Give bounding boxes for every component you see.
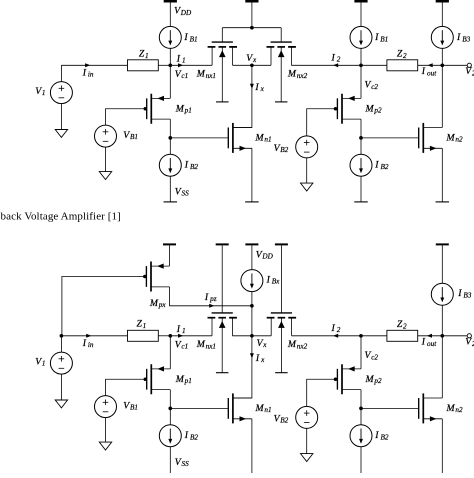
svg-text:out: out [427,340,437,348]
wire V2 down to Mn2 drain (bottom) [441,336,443,398]
VDD supply tick above Mpx [163,243,176,245]
label VSS (bottom) [175,457,189,468]
wire IBx to Ipz node [251,292,253,306]
label IB2 (right) [374,160,389,171]
wire Mnx2 to node Vc2 (bottom) [292,335,361,337]
svg-text:B2: B2 [280,146,288,154]
impedance Z1 [128,60,159,71]
svg-text:B2: B2 [280,417,288,425]
label IB2 (left) [184,160,199,171]
arrow I1 (bottom) [178,334,183,338]
label IB3 [456,32,471,43]
svg-text:B2: B2 [190,433,198,441]
wire VB2 down to ground (bottom) [306,428,308,453]
arrow Ix (bottom) [250,353,254,358]
label IB2 left (bottom) [184,430,199,441]
wire Z1 to node Vc1 (bottom) [158,335,170,337]
current source IB2 left (bottom) [159,425,181,447]
svg-text:B1: B1 [380,35,388,43]
transistor Mp1 [147,94,171,124]
svg-text:1: 1 [145,52,149,60]
wire V1 up to input corner [60,65,62,81]
arrow I2 [333,63,338,67]
transistor Mn1 (bottom) [228,393,252,423]
wire V1 up to input node (bottom) [60,336,62,352]
svg-text:out: out [427,69,437,77]
wire IB2 right to rail [360,176,362,202]
label Ix (bottom) [255,353,265,364]
wire VB2 up to Mp2 gate (bottom) [307,379,338,406]
svg-text:back Voltage Amplifier [1]: back Voltage Amplifier [1] [1,211,121,223]
node Mp1 gate dot [144,107,148,111]
ground below VB1 [99,172,111,180]
label I1 (bottom) [176,324,186,335]
svg-text:p1: p1 [184,377,192,385]
caption text [1,211,121,223]
wire node A to Mn1 gate (bottom) [170,407,228,409]
label Iin [82,67,94,78]
node A (Mp1 drain / IB2 / Mn1 gate) [168,136,172,140]
svg-text:M: M [255,403,265,414]
transistor Mp2 (bottom) [337,364,361,394]
wire node B to Mn2 gate [361,137,419,139]
current source IB3 [431,26,453,48]
svg-text:M: M [446,403,456,414]
label Mp2 (bottom) [365,374,382,385]
wire Mn2 source down to rail [441,148,443,202]
svg-text:2: 2 [337,56,341,64]
wire node Vx to Mnx2 (bottom) [252,335,271,337]
label Mp2 [365,103,382,114]
label Mp1 [175,103,192,114]
svg-text:nx2: nx2 [297,72,308,80]
svg-text:c1: c1 [181,343,188,351]
ground below V1 (bottom) [55,400,67,408]
svg-text:px: px [158,301,167,309]
svg-text:1: 1 [182,327,186,335]
wire IB2 to VSS (bottom) [169,447,171,473]
terminal V2 (bottom) [467,334,471,338]
wire Vc2 down to Mp2 source (bottom) [360,336,362,369]
VDD supply tick T3 (above Vc2, cropped) [354,0,367,3]
svg-text:nx2: nx2 [297,342,308,350]
svg-text:M: M [287,69,297,80]
label VDD (bottom fig) [256,250,274,261]
node Ipz junction [250,304,254,308]
label Mn2 (bottom) [446,403,463,414]
label IB3 (bottom) [457,288,472,299]
svg-text:B2: B2 [381,433,389,441]
label Vx (bottom) [257,338,268,349]
wire input to Z1 [61,64,127,66]
label I2 (bottom) [331,323,341,334]
wire IB1 right to node Vc2 [360,48,362,65]
svg-text:1: 1 [42,360,46,368]
svg-text:1: 1 [42,89,46,97]
VDD supply tick above Mnx1 gate [216,243,229,245]
label Vc1 [175,69,188,80]
wire Vc2 to Z2 [361,64,387,66]
svg-text:B1: B1 [130,404,138,412]
current source IB1 (left) [159,26,181,48]
label Mnx2 [287,69,308,80]
wire IB3 to node V2 [441,48,443,65]
svg-text:p2: p2 [373,377,382,385]
wire Mp1 gate to VB1 [106,109,147,125]
svg-text:DD: DD [261,253,273,261]
label V2 [465,66,474,77]
transistor Mnx1 [208,42,237,102]
wire node V2 to terminal (bottom) [442,335,467,337]
node Vc2 [359,63,363,67]
svg-text:B3: B3 [462,35,470,43]
svg-text:c2: c2 [371,353,378,361]
VSS rail tick [164,201,178,203]
wire Mnx1 to node Vx (bottom) [232,335,252,337]
arrow Ipz [209,304,214,308]
svg-text:B1: B1 [130,133,138,141]
wire Mnx1 gate stub [221,28,223,42]
wire Ipz node down to Vx [251,306,253,336]
arrow I1 [178,63,183,67]
svg-text:M: M [175,103,185,114]
wire Mnx2 gate to VDD tick [280,245,282,313]
svg-text:2: 2 [403,322,407,330]
node Vx (bottom) [250,334,254,338]
wire VB2 up to Mp2 gate [307,109,338,136]
svg-text:M: M [365,374,375,385]
wire node A to Mn1 gate [170,137,228,139]
wire Vx down to Mn1 drain (bottom) [233,336,252,398]
label IB1 (right) [374,32,388,43]
arrow Iout (bottom) [427,334,432,338]
label Z2 (bottom) [397,319,407,330]
arrow Iout [428,63,433,67]
wire VDD tick to IBx [251,245,253,269]
label Z2 [397,49,407,60]
wire Mp2 drain to node B (bottom) [360,390,362,409]
svg-text:M: M [175,374,185,385]
arrow Ix [250,84,254,89]
VDD supply tick T4 (above V2, cropped) [436,0,449,3]
svg-text:Z: Z [397,319,403,330]
node A (bottom) [168,407,172,411]
label VSS [175,186,189,197]
wire V2 down to Mn2 drain [441,65,443,127]
wire Mpx gate to input node [62,277,146,336]
arrow I2 (bottom) [333,334,338,338]
label Ix [254,82,264,93]
label Mp1 (bottom) [175,374,192,385]
transistor Mpx [146,262,169,292]
terminal V2 [467,63,471,67]
wire node Vc1 to Mnx1 [170,64,212,66]
label Z1 (bottom) [137,319,147,330]
label Vc1 (bottom) [175,339,188,350]
transistor Mnx2 [267,42,296,102]
svg-text:nx1: nx1 [206,72,216,80]
svg-text:M: M [196,339,206,350]
svg-text:DD: DD [180,9,192,17]
wire VDD tick to IB3 [441,3,443,27]
wire VDD tick to IB1 right [360,3,362,27]
wire tick to IB3 (bottom) [441,245,443,283]
svg-text:B2: B2 [190,163,198,171]
svg-text:M: M [365,103,375,114]
node V2 junction [440,63,444,67]
svg-text:in: in [88,71,94,79]
wire VB1 down to ground (bottom) [105,418,107,443]
svg-text:M: M [446,133,456,144]
node Vc2 (bottom) [359,334,363,338]
svg-text:2: 2 [403,52,407,60]
label V1 (bottom) [35,357,45,368]
node B (Mp2 drain / IB2 / Mn2 gate) [359,136,363,140]
wire Mnx gates rail [222,27,281,29]
label Ipz [204,292,217,303]
wire Mp1 drain to node A (bottom) [169,390,171,409]
label V1 [35,86,45,97]
wire Mp2 drain to node B [360,119,362,138]
rail tick below Mn2 [436,201,450,203]
svg-text:Z: Z [137,319,143,330]
ground below VB1 (bottom) [99,442,111,450]
wire node A to IB2 left [169,138,171,154]
ground below V1 [55,130,67,138]
node Vc1 (bottom) [168,334,172,338]
svg-text:Bx: Bx [272,278,280,286]
label IBx [266,274,281,285]
ground below VB2 (bottom) [301,454,313,462]
label Iin (bottom) [82,338,94,349]
svg-text:c2: c2 [371,83,378,91]
svg-text:2: 2 [337,326,341,334]
wire Z2 to node V2 [418,64,443,66]
current source IB2 (left) [159,154,181,176]
arrow Iin (bottom) [86,334,91,338]
wire Vc1 down to Mp1 source (bottom) [169,336,171,369]
voltage source VB1 (bottom) [95,396,117,418]
wire IB3 to node V2 (bottom) [441,305,443,336]
svg-text:SS: SS [182,190,190,198]
wire Vx down to Mn1 drain [233,65,252,127]
label VB2 (bottom) [274,414,289,425]
voltage source V1 [50,82,72,104]
svg-text:c1: c1 [181,72,188,80]
svg-text:nx1: nx1 [206,342,216,350]
wire Z1 to node Vc1 [158,64,170,66]
node Mp1 gate dot (bottom) [144,378,148,382]
transistor Mn2 [419,123,443,153]
ground below VB2 [301,183,313,191]
current source IB2 right (bottom) [350,425,372,447]
transistor Mnx1 (bottom) [208,313,237,373]
node V2 junction (bottom) [440,334,444,338]
wire node B to Mn2 gate (bottom) [361,407,419,409]
voltage source VB1 [95,125,117,147]
wire V1 down to ground (bottom) [60,374,62,400]
transistor Mp2 [337,94,361,124]
label Vc2 [365,80,379,91]
wire Mnx2 to node Vc2 [291,64,361,66]
impedance Z2 (bottom) [387,330,418,341]
label Iout (bottom) [421,337,437,348]
label Mn1 [255,133,272,144]
voltage source VB2 [296,136,318,158]
wire Mpx drain to Ipz node [170,287,252,306]
node B (bottom) [359,407,363,411]
wire input to Z1 (bottom) [61,335,127,337]
current source IB2 (right) [350,154,372,176]
label Mn2 [446,133,463,144]
wire Mp1 gate to VB1 (bottom) [106,379,147,395]
label VB1 (bottom) [123,401,138,412]
wire Mn1 source down (bottom) [251,419,253,473]
node Mp2 gate dot [334,107,338,111]
svg-text:n1: n1 [264,406,271,414]
label I1 [176,53,186,64]
label Iout [421,66,437,77]
label Mpx [149,298,166,309]
arrow Iin [85,63,90,67]
label Vx [246,53,257,64]
VDD supply tick above Mnx2 gate [275,243,288,245]
wire node B to IB2 (bottom) [360,408,362,424]
svg-text:p1: p1 [184,107,192,115]
svg-text:SS: SS [182,460,190,468]
label V2 (bottom) [465,337,474,348]
svg-text:Z: Z [397,49,403,60]
svg-text:pz: pz [209,295,217,303]
wire node A to IB2 (bottom) [169,408,171,424]
svg-text:Z: Z [139,49,145,60]
wire Mnx2 left to node Vx [252,64,271,66]
svg-text:in: in [88,341,94,349]
svg-text:p2: p2 [373,107,382,115]
svg-text:1: 1 [182,57,186,65]
wire Vc2 to Z2 (bottom) [361,335,387,337]
wire Z2 to node V2 (bottom) [418,335,443,337]
transistor Mp1 (bottom) [147,364,171,394]
impedance Z1 (bottom) [128,330,159,341]
svg-text:M: M [287,339,297,350]
svg-text:M: M [196,69,206,80]
transistor Mn2 (bottom) [419,393,443,423]
VDD supply tick T1 (left, cropped) [164,0,177,3]
wire node V2 to terminal [442,64,467,66]
svg-text:B2: B2 [381,163,389,171]
label Mnx2 (bottom) [287,339,308,350]
label I2 [331,53,341,64]
svg-text:B3: B3 [463,291,471,299]
transistor Mn1 [228,123,252,153]
rail tick below IB2 right [354,201,368,203]
label Z1 [139,49,149,60]
transistor Mnx2 (bottom) [267,313,296,373]
wire Mnx1 gate to VDD tick [221,245,223,313]
wire Mp1 drain to node A [169,119,171,138]
svg-text:1: 1 [143,322,147,330]
wire node Vc1 to Mnx1 (bottom) [170,335,212,337]
current source IB1 (right) [350,26,372,48]
node Mp2 gate dot (bottom) [334,378,338,382]
label VB2 [274,143,289,154]
node input junction (bottom) [60,334,64,338]
VDD supply tick above IB3 (bottom) [436,243,449,245]
wire VB1 down to ground [105,147,107,172]
svg-text:M: M [149,298,159,309]
wire VDD tick to IB1 left [169,3,171,27]
wire Mnx1 to node Vx [233,64,252,66]
wire Mn2 source down (bottom) [441,419,443,473]
svg-text:n1: n1 [264,136,271,144]
VDD supply tick T2 (middle, cropped) [245,0,258,3]
node Mpx gate dot [143,275,147,279]
impedance Z2 [387,60,418,71]
label IB1 (left) [183,32,197,43]
wire Vc2 down to Mp2 source [360,65,362,98]
label Vc2 (bottom) [365,350,379,361]
wire Mnx2 gate stub [280,28,282,42]
wire Mn1 source down to rail [251,148,253,202]
label Mnx1 (bottom) [196,339,216,350]
wire VDD tick to gates node [251,3,253,28]
wire IB2 left to VSS [169,176,171,202]
rail tick below Mn1 [245,201,259,203]
wire IB1 left to node Vc1 [169,48,171,65]
svg-text:M: M [255,133,265,144]
wire VB2 down to ground [306,158,308,183]
wire V1 down to ground [60,104,62,130]
label VDD (top fig) [174,6,192,17]
node Vc1 [168,63,172,67]
wire tick to Mpx source [169,245,171,266]
wire IB2 down (bottom) [360,447,362,473]
node Vx [250,63,254,67]
svg-text:B1: B1 [190,35,198,43]
VDD supply tick above IBx [245,243,258,245]
current source IB3 (bottom) [431,283,453,305]
wire Vc1 down to Mp1 source [169,65,171,98]
node gates junction [250,26,254,30]
wire node B to IB2 right [360,138,362,154]
current source IBx [241,270,263,292]
svg-text:n2: n2 [455,406,463,414]
label VB1 [123,130,138,141]
voltage source V1 (bottom) [50,352,72,374]
svg-text:n2: n2 [455,136,463,144]
voltage source VB2 (bottom) [296,406,318,428]
label Mn1 (bottom) [255,403,272,414]
label IB2 right (bottom) [374,430,389,441]
label Mnx1 [196,69,216,80]
